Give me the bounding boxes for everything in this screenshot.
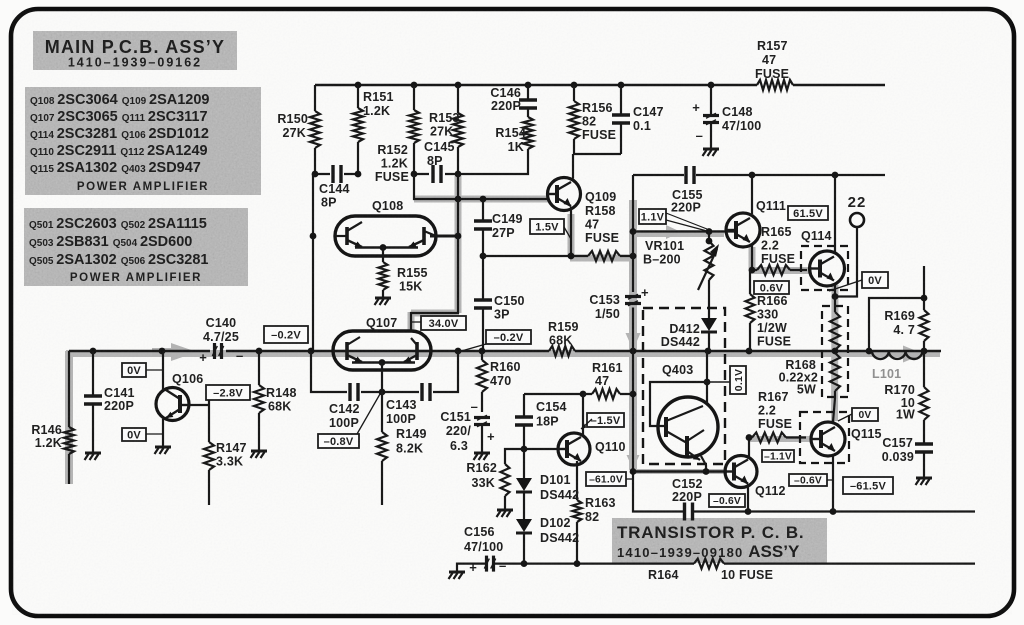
voltage label -1.1V <box>762 450 794 463</box>
voltage label 0V at Q114 <box>829 272 888 291</box>
ground at C148 <box>703 149 720 156</box>
resistor R148 <box>254 351 297 450</box>
signal path highlight <box>66 176 940 484</box>
capacitor C152 <box>672 477 703 521</box>
dual transistor Q108 <box>335 199 436 256</box>
capacitor C143 <box>386 383 430 426</box>
voltage label 0.6V <box>754 281 789 294</box>
resistor R155 <box>379 248 428 298</box>
resistor R160 <box>477 351 521 412</box>
voltage label 61.5V <box>788 206 828 220</box>
wire C142 C143 row <box>311 351 458 395</box>
terminal 22 <box>832 194 867 300</box>
resistor R164 <box>648 559 773 582</box>
ground at R162 <box>497 510 514 517</box>
transistor Q403 <box>650 351 718 472</box>
capacitor C156 <box>464 525 506 575</box>
voltage label -0.2V at Q107 <box>458 330 531 352</box>
capacitor C145 <box>424 140 455 183</box>
capacitor C144 <box>319 165 350 210</box>
resistor R146 <box>31 351 74 484</box>
transistor Q106 <box>156 351 209 446</box>
transistor Q403 dashed block <box>643 308 725 464</box>
capacitor C154 <box>515 394 567 449</box>
potentiometer VR101 <box>643 232 719 314</box>
resistor R156 <box>569 85 621 154</box>
resistor R163 <box>573 496 616 564</box>
capacitor C141 <box>84 351 135 452</box>
label plate transistor list POWER AMP 2 <box>24 208 248 286</box>
capacitor C149 <box>474 199 523 256</box>
wire R161 row <box>524 391 636 398</box>
ground at C156 <box>449 572 466 579</box>
wire top supply rail <box>315 82 885 89</box>
label plate transistor list MAIN <box>25 87 261 195</box>
resistor R158 <box>483 204 636 261</box>
wire collector chain to Q107 <box>411 174 458 331</box>
capacitor C148 <box>692 85 761 148</box>
wire Q108 collector to node <box>430 233 461 240</box>
transistor Q114 <box>801 176 848 297</box>
resistor R162 <box>466 449 524 509</box>
resistor R150 <box>277 85 320 174</box>
wire -61.5V rail <box>630 468 975 515</box>
wire main signal rail <box>69 348 941 355</box>
capacitor C151 <box>440 399 495 453</box>
resistor R157 <box>755 39 793 90</box>
ground at C157 <box>916 478 933 485</box>
wire 1.1V node line <box>633 228 736 235</box>
transistor Q109 <box>548 154 617 257</box>
wire bottom ground rail <box>457 560 975 571</box>
resistor R168 <box>779 297 848 423</box>
transistor Q111 <box>726 175 786 270</box>
wire Q109 base line <box>414 174 548 202</box>
label plate TRANSISTOR P.C.B. ASS'Y <box>612 518 827 563</box>
resistor R152 <box>375 85 419 184</box>
wire Q108 base vertical <box>310 174 317 351</box>
voltage label 34.0V <box>411 316 466 330</box>
resistor R159 <box>548 320 579 356</box>
voltage label -61.0V <box>586 472 632 486</box>
transistor Q115 <box>800 412 882 512</box>
voltage label -61.5V <box>843 477 893 494</box>
resistor R151 <box>353 85 394 174</box>
capacitor C146 <box>490 85 537 117</box>
voltage label -0.8V <box>318 394 380 448</box>
voltage label -0.6V at C152 <box>709 494 745 507</box>
diode D101 <box>516 449 579 519</box>
capacitor C153 <box>589 285 649 321</box>
wire Q112 base line <box>633 468 727 475</box>
label plate MAIN P.C.B. ASS'Y <box>33 31 237 70</box>
capacitor C140 <box>199 316 243 365</box>
voltage label 0V at Q115 <box>838 408 878 421</box>
ground at R155 <box>375 298 392 305</box>
voltage label -2.8V <box>206 385 250 400</box>
voltage label 1.1V <box>639 209 707 231</box>
dual transistor Q107 <box>333 316 431 370</box>
capacitor C147 <box>612 85 664 154</box>
capacitor C157 <box>882 436 933 477</box>
inductor L101 <box>872 351 922 381</box>
capacitor C155 <box>671 166 703 215</box>
voltage label -0.6V at Q115 <box>789 474 833 487</box>
voltage label 1.5V <box>530 219 571 239</box>
resistor R153 <box>429 85 463 174</box>
wire C155 rail <box>633 172 885 179</box>
transistor Q112 <box>725 438 786 512</box>
resistor R154 <box>458 117 533 174</box>
ground at R148 <box>251 451 268 458</box>
wire center vertical node <box>630 175 637 472</box>
voltage label 0V upper <box>122 363 163 377</box>
resistor R167 <box>746 390 806 443</box>
diode D102 <box>516 516 579 564</box>
resistor R166 <box>746 270 792 351</box>
transistor Q110 <box>521 394 626 500</box>
resistor R147 <box>204 400 247 505</box>
ground at C151 <box>474 453 491 460</box>
resistor R169 <box>869 266 929 351</box>
voltage label 0V lower <box>122 428 163 441</box>
voltage label -0.2V input <box>264 326 308 343</box>
voltage label -1.5V <box>581 413 624 429</box>
ground at Q106 emitter <box>155 447 172 454</box>
capacitor C142 <box>329 383 360 430</box>
resistor R170 <box>884 351 928 443</box>
capacitor C150 <box>474 253 525 351</box>
resistor R165 <box>749 225 807 275</box>
ground at C141 <box>85 453 102 460</box>
diode D412 <box>661 313 717 351</box>
voltage label 0.1V rotated <box>708 366 746 394</box>
resistor R161 <box>583 361 633 399</box>
resistor R149 <box>377 392 427 505</box>
wire C144 C145 row <box>312 171 462 178</box>
